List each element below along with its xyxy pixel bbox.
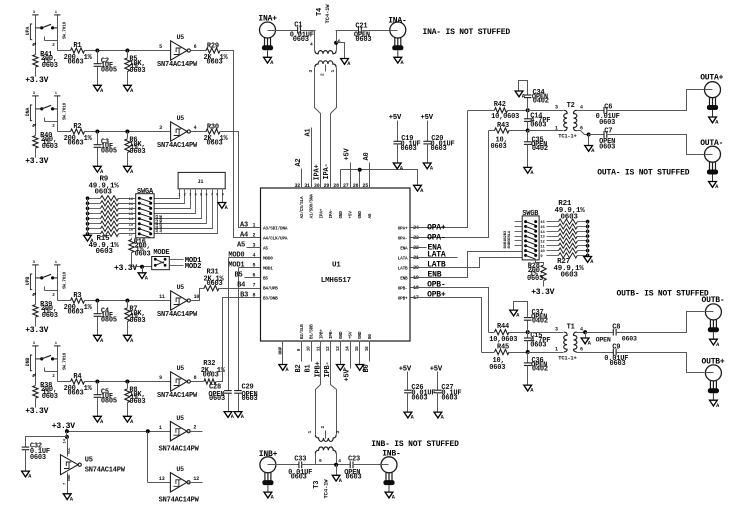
svg-text:0603: 0603 [527,275,543,283]
J1 pins + staircase wires to SWGA [155,189,180,199]
svg-text:OUTA+: OUTA+ [700,74,723,83]
svg-text:+3.3V: +3.3V [25,326,48,335]
svg-text:TC1-1+: TC1-1+ [558,134,576,140]
op-amp U5 spare gate (1-2) [170,422,187,441]
svg-text:MOD0: MOD0 [228,252,244,260]
svg-text:R44: R44 [497,323,509,331]
svg-text:MOD2: MOD2 [185,263,201,271]
wire net OPB- (pin 18) [411,288,489,333]
svg-text:INB- IS NOT STUFFED: INB- IS NOT STUFFED [371,440,459,449]
svg-text:8: 8 [216,194,218,198]
resistor R2 (series 200) [71,129,85,134]
svg-text:B4B5ENLA: B4B5ENLA [508,230,512,248]
pin 6 stub net B5 [245,277,261,279]
connector OUTA- [705,146,721,162]
svg-text:T2: T2 [567,102,575,110]
svg-text:0603: 0603 [42,393,58,401]
svg-text:0603: 0603 [441,394,457,402]
svg-text:0603: 0603 [491,143,507,151]
svg-text:+5V: +5V [430,366,443,374]
svg-text:A0: A0 [368,213,373,218]
connector INB- [381,457,397,473]
resistor R41 (pull 200) [33,55,38,68]
svg-text:A3/SDI/DNA: A3/SDI/DNA [263,226,288,231]
node junction [95,49,99,53]
svg-text:29: 29 [324,183,330,189]
svg-text:DNA: DNA [25,108,31,117]
wire [607,90,705,111]
resistor R7 (10K shunt) [127,301,129,308]
svg-text:B3/DNB: B3/DNB [263,296,278,301]
svg-text:OUTB- IS NOT STUFFED: OUTB- IS NOT STUFFED [617,290,709,299]
svg-text:GND: GND [339,331,344,339]
pin 13 ground VA [340,341,342,365]
resistor R28 (200) [536,260,544,265]
svg-text:7: 7 [253,283,256,289]
ground VA [279,365,287,371]
svg-text:0603: 0603 [599,119,615,127]
wire net LATB (pin 20) [411,258,523,268]
pin 32 stub net A2 [301,169,303,189]
resistor R42 (10) [468,110,495,112]
ground VA [94,416,102,422]
svg-text:1: 1 [307,431,313,434]
node junction [526,350,530,354]
svg-text:R30: R30 [207,123,219,131]
wire [85,50,171,52]
svg-text:SN74AC14PW: SN74AC14PW [157,392,198,400]
connector OUTB- [705,304,721,320]
svg-text:0603: 0603 [411,394,427,402]
svg-text:0603: 0603 [30,454,46,462]
wire OUTA+ row [577,110,604,112]
capacitor C33 (0.01UF) [298,461,300,468]
svg-text:SN74AC14PW: SN74AC14PW [157,142,198,150]
capacitor C9 (0.01UF) [612,349,614,356]
svg-text:A4: A4 [240,232,248,240]
svg-text:0603: 0603 [293,36,309,44]
resistor R5 (10K shunt) [127,51,129,58]
svg-text:IPA+: IPA+ [319,208,324,218]
wire IPA funnel [315,68,321,189]
svg-text:+5V: +5V [389,114,402,122]
svg-text:LMH6517: LMH6517 [321,277,351,285]
svg-text:OPA-: OPA- [427,234,445,243]
node junction [95,299,99,303]
svg-text:GND: GND [358,331,363,339]
svg-text:+5V: +5V [344,368,352,381]
resistor R44 (10) [489,332,495,334]
svg-text:SWGA: SWGA [137,188,154,196]
svg-text:6: 6 [580,347,583,353]
op-amp U5 inverter (pins 9-8) [171,372,188,391]
ground VA [63,494,71,500]
capacitor C4 (1UF) [97,301,99,314]
wire net A3 [221,132,261,228]
wire [147,432,149,483]
svg-text:VCC: VCC [68,447,72,454]
switch DNB [35,346,37,386]
svg-text:C33: C33 [294,456,306,464]
capacitor C5 (1UF) [97,382,99,395]
wire net OPA+ (pin 24) [411,111,468,228]
wire +3.3V rail [66,429,68,432]
svg-text:0805: 0805 [101,147,117,155]
svg-text:U1: U1 [332,262,341,270]
svg-text:OPA+: OPA+ [398,226,408,231]
capacitor C32 (0.1UF) [26,437,67,448]
svg-text:IPA-: IPA- [323,163,331,179]
resistor R3 (series 200) [71,298,85,303]
svg-text:MOD1: MOD1 [263,266,273,271]
resistor R45 (10) [482,352,495,354]
svg-text:0603: 0603 [489,364,505,372]
resistor R40 (pull 200) [33,136,38,149]
ground VA [393,163,401,169]
svg-text:0603: 0603 [207,280,223,288]
svg-text:T4: T4 [316,8,324,16]
svg-text:R4: R4 [73,373,81,381]
wire [58,50,71,52]
svg-text:IPB-: IPB- [329,329,334,339]
svg-text:SN74AC14PW: SN74AC14PW [85,466,126,474]
svg-text:TC4-1W: TC4-1W [323,479,330,499]
svg-text:30: 30 [314,183,320,189]
svg-text:+3.3V: +3.3V [25,407,48,416]
svg-text:2: 2 [193,425,196,431]
svg-text:INA-: INA- [388,17,406,26]
svg-text:1: 1 [178,194,180,198]
ground VA [404,412,412,418]
svg-text:+5V: +5V [349,331,354,339]
svg-text:A5: A5 [237,242,245,250]
svg-text:SN74AC14PW: SN74AC14PW [159,497,200,505]
capacitor C20 (0.01UF) [427,121,429,142]
op-amp U1 LMH6517 body [261,188,411,341]
svg-text:C9: C9 [612,344,620,352]
svg-text:R3: R3 [73,292,81,300]
transformer T1 TC1-1+ [528,332,564,334]
pin 14 stub +5V [350,341,352,369]
wire net A4 [221,51,261,238]
svg-text:U5: U5 [177,284,185,291]
svg-text:3: 3 [335,431,341,434]
svg-text:0603: 0603 [68,59,84,67]
op-amp U5 inverter (pins 5-6) [171,41,188,60]
capacitor C26 (0.01UF) [407,372,409,391]
connector OUTB+ [705,365,721,381]
switch MODE [152,257,170,270]
svg-text:2: 2 [320,426,326,429]
svg-text:J1: J1 [198,179,204,185]
svg-text:4: 4 [194,125,197,131]
svg-text:SW_7010: SW_7010 [63,352,68,370]
resistor R8 (10K shunt) [127,382,129,389]
ground VA [124,416,132,422]
svg-text:LATA: LATA [427,251,446,260]
svg-text:10,0603: 10,0603 [491,113,519,121]
svg-text:SWGB: SWGB [522,210,539,218]
svg-text:+5V: +5V [399,366,412,374]
svg-text:R42: R42 [494,101,506,109]
svg-text:R43: R43 [497,122,509,130]
capacitor C15 (4.7PF) [527,333,529,339]
wire net B4 [219,288,261,290]
svg-text:3: 3 [555,105,558,111]
ground VA [524,385,532,391]
resistor R30 (2K) [191,131,207,133]
svg-text:0603: 0603 [207,139,223,147]
resistor R32 (2K) [191,381,204,383]
svg-text:0805: 0805 [101,66,117,74]
transformer T2 TC1-1+ [528,110,564,112]
svg-text:0603: 0603 [622,336,637,343]
svg-text:0603: 0603 [129,317,145,325]
svg-text:B0: B0 [363,364,371,372]
svg-text:4: 4 [253,253,256,259]
svg-text:10: 10 [194,294,200,300]
capacitor C7 (OPEN) [589,134,604,136]
svg-text:3: 3 [159,125,162,131]
wire [607,135,705,155]
svg-text:+3.3V: +3.3V [114,264,137,273]
wire [85,381,171,383]
resistor R4 (series 200) [71,379,85,384]
resistor R6 (10K shunt) [127,132,129,139]
svg-text:T3: T3 [313,481,321,489]
svg-text:3: 3 [189,194,191,198]
svg-text:INB-: INB- [382,450,400,459]
op-amp U5 spare gate (13-12) [170,473,187,492]
svg-text:SW_7010: SW_7010 [63,102,68,120]
svg-text:6: 6 [206,194,208,198]
svg-text:MODE: MODE [153,249,169,257]
svg-text:A1/SDO/SNA: A1/SDO/SNA [310,194,315,219]
svg-text:5: 5 [200,194,202,198]
svg-text:25: 25 [362,183,368,189]
svg-text:+5V: +5V [349,211,354,219]
ground VA [224,412,232,418]
capacitor C23 (OPEN) [349,461,351,468]
ground VA [515,91,523,97]
SWGB left net stubs [515,221,523,223]
svg-text:2: 2 [253,233,256,239]
wire net OPA- (pin 23) [411,131,489,238]
resistor R43 (10) [489,130,495,132]
svg-text:4: 4 [195,194,197,198]
svg-text:OPB-: OPB- [427,281,445,290]
svg-text:B1: B1 [305,364,313,372]
svg-text:0603: 0603 [610,360,626,368]
capacitor C8 (OPEN) [586,332,614,334]
capacitor C29 (OPEN) [234,390,242,392]
svg-text:A3: A3 [240,222,248,230]
svg-text:U5: U5 [176,415,184,422]
wire net MOD1 MOD2 [170,259,184,261]
resistor R16 (200) [139,238,141,239]
svg-text:0603: 0603 [530,341,546,349]
ground VA [584,257,592,263]
svg-text:INA- IS NOT STUFFED: INA- IS NOT STUFFED [423,28,511,37]
switch UPA [35,15,37,55]
wire [617,312,705,333]
svg-text:DNP: DNP [277,346,283,354]
svg-text:1: 1 [555,125,558,131]
svg-text:IPA+: IPA+ [314,164,322,180]
node junction pin6 / ground VA [577,131,589,135]
svg-text:MOD1: MOD1 [228,262,244,270]
svg-text:C21: C21 [355,22,367,30]
wire IPB funnel [316,341,321,435]
capacitor C21 (OPEN) [336,30,359,32]
wire [276,30,298,32]
svg-text:0402: 0402 [532,366,548,374]
ground VA [138,273,146,279]
wire [301,30,316,32]
svg-text:+3.3V: +3.3V [531,288,554,297]
svg-text:SW_7010: SW_7010 [63,21,68,39]
svg-text:7: 7 [211,194,213,198]
svg-text:TC4-1W: TC4-1W [324,4,331,24]
svg-text:GND: GND [339,211,344,219]
switch UPB [35,265,37,305]
connector INA- [390,22,406,38]
switch DNA [35,96,37,136]
svg-text:R29: R29 [207,42,219,50]
svg-text:T1: T1 [567,324,575,332]
svg-text:OUTA-: OUTA- [700,139,723,148]
pin 15 ground VA [359,341,361,365]
svg-text:4: 4 [310,42,313,48]
svg-text:U5: U5 [177,34,185,41]
svg-text:31: 31 [304,183,310,189]
svg-text:0603: 0603 [68,309,84,317]
svg-text:0603: 0603 [599,144,615,152]
svg-text:A4A5MODE: A4A5MODE [160,214,164,232]
wire [58,300,71,302]
pin 10 stub net B1 [311,341,313,362]
svg-text:R2: R2 [73,123,81,131]
svg-text:11: 11 [159,294,165,300]
svg-text:0402: 0402 [533,97,549,105]
ground VA [234,412,242,418]
svg-text:B1/SDB: B1/SDB [310,324,315,339]
capacitor C1 (0.01UF) [297,27,299,34]
connector INA+ [260,22,276,38]
capacitor C36 (OPEN) [527,353,529,363]
connector OUTA+ [705,82,721,98]
svg-text:13: 13 [159,476,165,482]
svg-text:5: 5 [253,263,256,269]
svg-text:A0: A0 [363,152,371,160]
svg-text:0402: 0402 [532,145,548,153]
pin 25 stub net A0 [369,163,371,189]
svg-text:0603: 0603 [291,474,307,482]
svg-text:28: 28 [333,183,339,189]
svg-text:R1: R1 [73,42,81,50]
capacitor C6 (0.01UF) [603,107,605,114]
svg-text:GND: GND [358,211,363,219]
pin 31 wire net A1 [311,128,313,189]
switch SWGA [136,194,154,238]
svg-text:0603: 0603 [68,140,84,148]
node junction [95,130,99,134]
svg-text:0603: 0603 [42,312,58,320]
svg-text:C1: C1 [294,21,302,29]
switch SWGB [522,216,539,260]
wire OUTB+ row [577,352,614,354]
wire [276,464,299,466]
svg-text:0603: 0603 [561,214,579,222]
ground VA [524,167,532,173]
svg-text:IPB+: IPB+ [319,329,324,339]
svg-text:SN74AC14PW: SN74AC14PW [159,446,200,454]
svg-text:6: 6 [194,44,197,50]
resistor R31 (2K) [191,289,205,301]
svg-text:0603: 0603 [242,395,258,403]
svg-text:A2/CS/SLA: A2/CS/SLA [300,196,305,218]
svg-text:DNB: DNB [25,358,31,367]
ground VA [124,166,132,172]
svg-text:0603: 0603 [401,145,417,153]
ground VA [22,471,30,477]
svg-text:10: 10 [307,346,312,351]
svg-text:U5: U5 [177,115,185,122]
svg-text:0603: 0603 [346,474,362,482]
svg-text:1: 1 [253,223,256,229]
svg-text:B5: B5 [263,276,268,281]
svg-text:+3.3V: +3.3V [25,157,48,166]
svg-text:8: 8 [253,293,256,299]
svg-text:4: 4 [580,105,583,111]
transformer T3 TC4-1W [315,435,336,442]
ground bus GND pins 28/26 [340,170,342,189]
node junction [132,266,152,268]
capacitor C27 (0.1UF) [437,372,439,391]
svg-text:OUTA- IS NOT STUFFED: OUTA- IS NOT STUFFED [597,169,689,178]
svg-text:U5: U5 [177,365,185,372]
wire [85,131,171,133]
svg-text:3: 3 [308,70,314,73]
svg-text:C8: C8 [612,324,620,332]
capacitor C3 (1UF) [97,132,99,145]
svg-text:0603: 0603 [203,372,219,380]
pin 27 stub +5V [350,163,352,189]
svg-text:B0: B0 [368,334,373,339]
transformer T4 TC4-1W [314,31,316,51]
node junction [526,330,530,334]
resistor R39 (pull 200) [33,305,38,318]
svg-text:SW_7010: SW_7010 [63,271,68,289]
capacitor C14 (4.7PF) [527,111,529,119]
ground VA [94,166,102,172]
node junction [146,429,150,433]
ground VA [124,85,132,91]
svg-text:2: 2 [320,73,326,76]
svg-text:6: 6 [338,39,341,45]
svg-text:U5: U5 [85,457,93,465]
svg-text:5: 5 [159,44,162,50]
svg-text:26: 26 [353,183,359,189]
svg-text:0603: 0603 [129,398,145,406]
svg-text:IPB+: IPB+ [314,361,322,377]
svg-text:A5: A5 [263,246,268,251]
svg-text:B3: B3 [240,292,248,300]
wire net MOD1 vertical [239,267,261,269]
svg-text:C23: C23 [348,456,360,464]
capacitor C35 (OPEN) [527,131,529,142]
svg-text:9: 9 [159,375,162,381]
